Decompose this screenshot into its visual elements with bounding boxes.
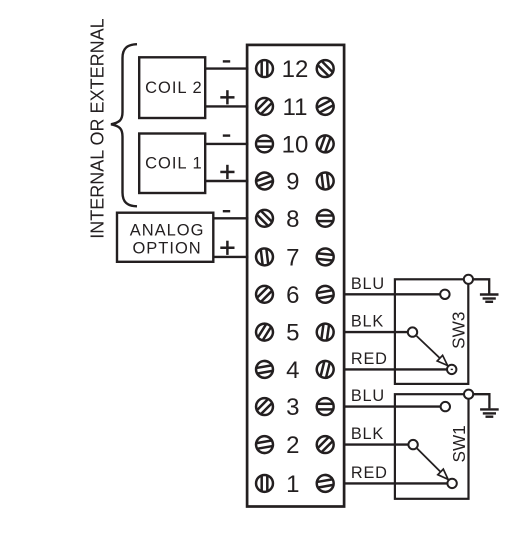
svg-text:COIL 2: COIL 2	[145, 79, 203, 97]
svg-text:12: 12	[282, 56, 309, 83]
svg-text:4: 4	[286, 357, 299, 384]
svg-text:5: 5	[286, 320, 299, 347]
svg-text:BLK: BLK	[351, 425, 384, 443]
svg-text:10: 10	[282, 131, 309, 158]
svg-text:2: 2	[286, 432, 299, 459]
svg-text:6: 6	[286, 282, 299, 309]
svg-text:11: 11	[283, 94, 308, 121]
svg-text:RED: RED	[351, 350, 388, 368]
svg-text:SW3: SW3	[449, 312, 469, 349]
svg-text:COIL 1: COIL 1	[145, 154, 203, 172]
svg-text:INTERNAL OR EXTERNAL: INTERNAL OR EXTERNAL	[88, 18, 108, 238]
svg-text:ANALOG: ANALOG	[130, 221, 205, 239]
svg-text:3: 3	[286, 394, 299, 421]
svg-text:9: 9	[286, 169, 299, 196]
svg-text:8: 8	[286, 206, 299, 233]
svg-text:OPTION: OPTION	[132, 240, 201, 258]
svg-text:SW1: SW1	[449, 425, 469, 462]
svg-text:RED: RED	[351, 464, 388, 482]
svg-text:BLU: BLU	[351, 275, 385, 293]
svg-text:BLU: BLU	[351, 387, 385, 405]
svg-text:BLK: BLK	[351, 313, 384, 331]
svg-text:1: 1	[286, 471, 299, 498]
svg-text:7: 7	[286, 244, 299, 271]
